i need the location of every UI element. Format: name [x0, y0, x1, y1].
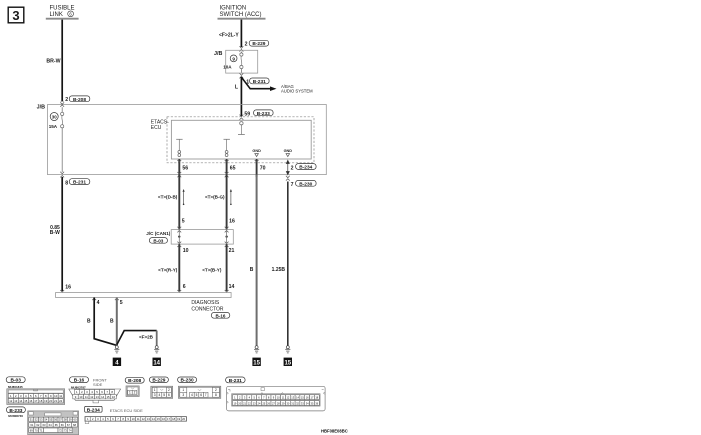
ETACS internal: switch at pin 65: [224, 139, 230, 156]
svg-text:15: 15: [24, 399, 28, 403]
connector symbols at diagnosis box top: [60, 290, 228, 300]
CAN wire from pin 65 to J/C: [226, 175, 228, 230]
svg-text:B-03: B-03: [153, 238, 163, 243]
ignition switch (ACC) power source: [218, 6, 266, 19]
connector B-229 pin 2 label: [245, 40, 269, 47]
svg-text:6: 6: [183, 284, 186, 290]
connector pinout B-208: [125, 377, 144, 396]
svg-text:<T>(R-Y): <T>(R-Y): [158, 267, 178, 272]
svg-text:2: 2: [65, 97, 68, 103]
ETACS-ECU dashed outline: [151, 117, 314, 163]
svg-text:6: 6: [200, 393, 202, 397]
svg-text:B-230: B-230: [181, 378, 194, 384]
svg-text:13: 13: [96, 395, 100, 399]
svg-text:GND: GND: [284, 149, 293, 153]
svg-text:11: 11: [137, 417, 140, 421]
svg-text:19: 19: [44, 399, 48, 403]
svg-text:7: 7: [291, 182, 294, 188]
svg-text:62: 62: [36, 423, 39, 427]
connector symbol at pin 59: [240, 115, 244, 120]
svg-text:5: 5: [182, 218, 185, 224]
svg-text:8: 8: [215, 393, 217, 397]
connector symbol pin 56: [177, 160, 181, 162]
svg-text:2: 2: [168, 388, 170, 392]
svg-text:7: 7: [205, 393, 207, 397]
connector pinout B-16 (diagnosis connector, front side): [69, 377, 121, 403]
branch wire <F>2B to ground 14: [117, 331, 157, 345]
svg-text:3: 3: [154, 393, 156, 397]
svg-text:2: 2: [245, 42, 248, 48]
svg-text:9: 9: [232, 56, 235, 61]
twisted pair arrow 1: [183, 189, 185, 205]
svg-text:B-03: B-03: [10, 378, 21, 384]
svg-text:SWITCH (ACC): SWITCH (ACC): [220, 12, 262, 18]
svg-text:71: 71: [39, 428, 42, 432]
ground symbol 15 (left): [252, 346, 260, 367]
CAN wire from pin 56 to J/C: [178, 175, 180, 230]
svg-text:69: 69: [30, 428, 33, 432]
svg-text:IGNITION: IGNITION: [220, 6, 247, 12]
connector pinout B-234 (ETACS ECU side): [85, 406, 187, 423]
svg-text:1: 1: [154, 388, 156, 392]
diagnosis connector text: [191, 300, 229, 318]
svg-text:11: 11: [85, 395, 88, 399]
svg-text:14: 14: [229, 284, 235, 290]
svg-text:LINK: LINK: [50, 12, 63, 18]
svg-text:10: 10: [79, 395, 83, 399]
svg-text:B-231: B-231: [73, 180, 86, 186]
wire inside J/B from fuse 30 to bottom: [61, 128, 63, 172]
svg-text:B-W: B-W: [50, 230, 60, 236]
svg-text:B-233: B-233: [9, 408, 22, 414]
ETACS-ECU inner box: [171, 120, 311, 159]
svg-text:54: 54: [44, 418, 47, 422]
svg-text:<T>(D-B): <T>(D-B): [158, 194, 178, 199]
svg-text:72: 72: [59, 428, 62, 432]
svg-text:J/B: J/B: [214, 51, 222, 57]
svg-text:57: 57: [59, 418, 62, 422]
svg-text:56: 56: [54, 418, 57, 422]
svg-text:12: 12: [9, 399, 13, 403]
ETACS internal: GND at pin 2: [284, 149, 293, 157]
svg-text:<T>(B-G): <T>(B-G): [205, 194, 225, 199]
svg-text:16: 16: [65, 285, 71, 291]
svg-text:55: 55: [49, 418, 52, 422]
J/C (CAN1) joint connector box: [146, 230, 233, 245]
CAN wire from J/C pin 21 to diagnosis pin 14: [226, 244, 228, 291]
svg-text:HBF08E08BC: HBF08E08BC: [321, 428, 348, 433]
svg-text:B-230: B-230: [299, 181, 312, 187]
svg-text:10A: 10A: [223, 65, 232, 70]
svg-text:18: 18: [39, 399, 43, 403]
svg-text:CONNECTOR: CONNECTOR: [191, 306, 224, 312]
svg-text:16: 16: [112, 395, 116, 399]
svg-text:14: 14: [19, 399, 23, 403]
svg-text:53: 53: [39, 418, 42, 422]
ground symbol 14: [153, 346, 161, 367]
wire pin 65 to J/B bottom: [226, 159, 228, 177]
svg-text:8: 8: [65, 180, 68, 186]
connector pinout B-231: [226, 377, 326, 411]
svg-text:6: 6: [168, 393, 170, 397]
svg-text:2: 2: [291, 165, 294, 171]
svg-text:56: 56: [182, 166, 188, 172]
wire L from fuse to ETACS: [240, 77, 242, 117]
ground wire from pin 70: [256, 175, 258, 346]
svg-text:B: B: [87, 318, 91, 324]
svg-text:B-16: B-16: [74, 378, 85, 384]
svg-text:MU803787: MU803787: [71, 385, 86, 389]
svg-text:5: 5: [120, 300, 123, 306]
svg-text:68: 68: [73, 423, 76, 427]
connector symbol pin 70: [255, 160, 259, 162]
svg-text:ECU: ECU: [151, 125, 162, 131]
ground symbol 4: [113, 346, 121, 367]
svg-text:13: 13: [14, 399, 18, 403]
wire inside J/C: [178, 230, 180, 245]
J/B junction block box: [37, 104, 327, 174]
svg-text:B-229: B-229: [152, 378, 165, 384]
svg-text:10: 10: [132, 417, 135, 421]
page number box 3: [8, 7, 24, 23]
svg-text:4: 4: [97, 300, 100, 306]
connector symbols at J/C pins: [177, 227, 228, 247]
svg-text:<F>2B: <F>2B: [139, 335, 154, 340]
svg-text:4: 4: [158, 393, 160, 397]
svg-text:14: 14: [101, 395, 105, 399]
wire B from pin 5 to ground: [116, 298, 118, 346]
svg-text:59: 59: [69, 418, 72, 422]
fuse 30 symbol on wire: [61, 107, 64, 128]
svg-text:J/B: J/B: [37, 104, 45, 110]
wire 0.85 B-W down to diagnosis connector: [61, 177, 63, 291]
svg-text:20: 20: [49, 399, 53, 403]
svg-text:16: 16: [229, 218, 235, 224]
svg-text:67: 67: [67, 423, 70, 427]
svg-text:16: 16: [162, 417, 165, 421]
fuse 9 symbol on wire: [240, 52, 243, 73]
svg-text:1: 1: [129, 390, 131, 394]
svg-text:3: 3: [12, 8, 19, 23]
connector B-233 pin 59 label: [244, 110, 273, 117]
svg-text:B-229: B-229: [252, 41, 265, 47]
svg-text:10: 10: [54, 394, 58, 398]
connector symbol pin 65: [225, 160, 229, 162]
svg-text:18: 18: [172, 417, 175, 421]
CAN wire from J/C pin 10 to diagnosis pin 6: [178, 244, 180, 291]
wire BR-W from fusible link to J/B: [61, 20, 63, 102]
svg-text:B-234: B-234: [299, 165, 312, 171]
connector symbol B-229 on wire: [240, 46, 244, 51]
svg-text:GND: GND: [252, 149, 261, 153]
connector symbol below fuse box: [240, 73, 244, 78]
svg-text:13: 13: [147, 417, 150, 421]
svg-text:B-208: B-208: [73, 97, 86, 103]
svg-text:ETACS ECU SIDE: ETACS ECU SIDE: [110, 408, 143, 413]
svg-text:15A: 15A: [49, 124, 58, 129]
svg-text:15: 15: [253, 360, 260, 366]
svg-text:<T>(B-Y): <T>(B-Y): [202, 267, 222, 272]
svg-text:15: 15: [284, 360, 291, 366]
wire label 0.85 B-W: [50, 225, 60, 236]
connector B-231 pin 1 label: [246, 78, 269, 85]
connector pinout B-229: [149, 377, 172, 398]
twisted pair arrow 2: [230, 189, 232, 205]
svg-text:51: 51: [30, 418, 33, 422]
svg-text:1: 1: [182, 388, 184, 392]
connector symbol B-208 at J/B top: [60, 101, 64, 107]
svg-text:B-16: B-16: [216, 313, 226, 318]
svg-text:12: 12: [90, 395, 94, 399]
svg-text:65: 65: [55, 423, 58, 427]
svg-text:3: 3: [182, 393, 184, 397]
branch wire to audio system: [241, 77, 313, 93]
svg-text:64: 64: [49, 423, 52, 427]
connector B-231 pin 8 label: [65, 179, 90, 187]
ETACS internal: pin 59 input element: [238, 122, 245, 135]
svg-text:11: 11: [59, 394, 62, 398]
wire pin 70 to J/B bottom: [256, 159, 258, 177]
svg-text:60: 60: [74, 418, 77, 422]
svg-text:BR-W: BR-W: [46, 59, 60, 65]
svg-text:4: 4: [191, 393, 193, 397]
svg-text:21: 21: [229, 248, 235, 254]
ground wire 1.25B from pin 7 B-230: [287, 182, 289, 346]
svg-text:58: 58: [64, 418, 67, 422]
svg-text:1.25B: 1.25B: [272, 267, 286, 273]
connector B-230 pin 7 label: [291, 180, 317, 188]
svg-text:10: 10: [183, 248, 189, 254]
svg-text:J/C (CAN1): J/C (CAN1): [146, 231, 170, 236]
svg-text:73: 73: [64, 428, 67, 432]
diagnosis connector box: [56, 293, 232, 298]
svg-text:21: 21: [54, 399, 58, 403]
fusible link (6) power source: [46, 6, 79, 19]
svg-text:66: 66: [61, 423, 64, 427]
svg-text:14: 14: [152, 417, 155, 421]
svg-text:74: 74: [69, 428, 72, 432]
connector symbols at J/B bottom for pins 56 and 65: [177, 172, 228, 177]
wire pin 56 to J/B bottom: [178, 159, 180, 177]
svg-text:59: 59: [244, 111, 250, 117]
svg-text:17: 17: [34, 399, 38, 403]
svg-text:19: 19: [177, 417, 180, 421]
wire B from pin 4 to ground: [94, 298, 116, 346]
svg-text:30: 30: [52, 115, 57, 120]
svg-text:70: 70: [260, 166, 266, 172]
svg-text:SIDE: SIDE: [93, 382, 103, 387]
connector B-234 pin 2 label: [291, 164, 317, 172]
svg-text:MU808746: MU808746: [8, 414, 23, 418]
svg-text:<F>2L-Y: <F>2L-Y: [219, 33, 239, 39]
svg-text:MU801845: MU801845: [8, 385, 23, 389]
svg-text:FUSIBLE: FUSIBLE: [50, 6, 75, 12]
svg-text:B-208: B-208: [128, 378, 141, 384]
svg-text:61: 61: [30, 423, 33, 427]
svg-text:16: 16: [29, 399, 33, 403]
svg-text:15: 15: [157, 417, 160, 421]
svg-text:B: B: [250, 267, 254, 273]
J/B fuse box (fuse 9, 10A): [214, 50, 258, 73]
ETACS internal: switch at pin 56: [176, 139, 182, 156]
svg-text:52: 52: [35, 418, 38, 422]
svg-text:20: 20: [182, 417, 185, 421]
svg-text:70: 70: [35, 428, 38, 432]
connector B-208 pin 2 label: [65, 96, 90, 103]
junction node dots inside J/C: [178, 236, 180, 238]
svg-text:B-231: B-231: [229, 378, 242, 384]
fuse 30 (15A) inside J/B: [49, 113, 59, 130]
ground symbol 15 (right): [284, 346, 292, 367]
svg-text:B: B: [110, 318, 114, 324]
connector symbol B-231 at J/B bottom left: [60, 172, 64, 178]
svg-text:5: 5: [163, 393, 165, 397]
svg-text:63: 63: [43, 423, 46, 427]
svg-text:AUDIO SYSTEM: AUDIO SYSTEM: [281, 89, 313, 94]
svg-text:2: 2: [215, 388, 217, 392]
svg-text:B-233: B-233: [257, 111, 270, 117]
svg-text:B-234: B-234: [87, 407, 100, 413]
ETACS internal: GND at pin 70: [252, 149, 261, 157]
svg-text:DIAGNOSIS: DIAGNOSIS: [191, 300, 219, 306]
svg-text:B-231: B-231: [253, 79, 266, 85]
wire 2L-Y from ignition switch: [240, 20, 242, 47]
svg-text:15: 15: [106, 395, 110, 399]
connector pinout B-230: [178, 377, 221, 398]
connector pinout B-03: [6, 377, 65, 405]
svg-text:17: 17: [167, 417, 170, 421]
connector pinout B-233 (ETACS J/B side): [6, 407, 78, 435]
pin 2 connector pass-through arrow: [286, 161, 289, 175]
svg-text:65: 65: [230, 166, 236, 172]
svg-text:2: 2: [134, 390, 136, 394]
svg-text:5: 5: [196, 393, 198, 397]
svg-text:14: 14: [153, 360, 160, 366]
svg-text:22: 22: [59, 399, 63, 403]
connector symbol at J/B bottom for B-230: [286, 176, 290, 181]
svg-text:12: 12: [142, 417, 145, 421]
